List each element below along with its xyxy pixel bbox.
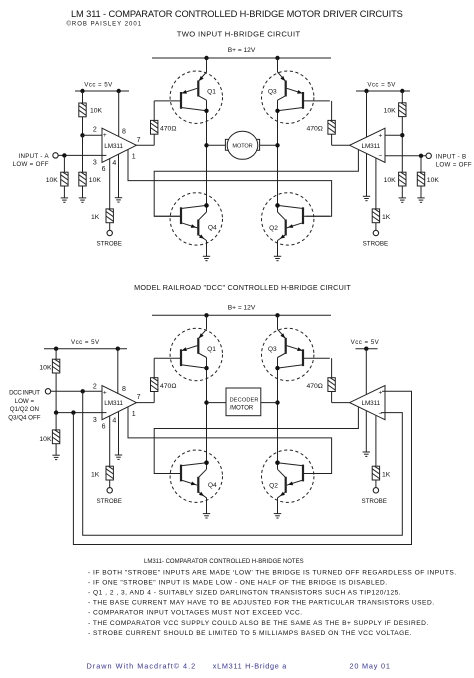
svg-text:Q1/Q2 ON: Q1/Q2 ON <box>10 406 39 413</box>
node Vcc rail (bottom left) <box>44 339 127 351</box>
pin 6 wire right to strobe <box>375 158 377 209</box>
resistor R14 470ohm (U3 out to Q1 base) <box>136 358 176 402</box>
wire U1 pin1 to Q2 base <box>128 150 332 217</box>
svg-text:Q1: Q1 <box>207 89 216 96</box>
svg-text:20 May 01: 20 May 01 <box>350 662 391 671</box>
node Vcc stub (bottom right) <box>351 339 380 351</box>
svg-text:6: 6 <box>102 424 106 431</box>
svg-text:- IF ONE "STROBE" INPUT IS MAD: - IF ONE "STROBE" INPUT IS MADE LOW - ON… <box>88 579 388 586</box>
resistor R13 1K (strobe bottom left) <box>91 466 113 487</box>
svg-text:10K: 10K <box>90 107 103 114</box>
resistor R11 10K (Vcc to divider) <box>39 349 59 413</box>
op-amp U3 LM311 (bottom left) <box>102 386 136 420</box>
wire motor left <box>207 144 226 146</box>
op-amp U1 LM311 (left) <box>102 128 136 162</box>
node Vcc rail (left) <box>75 82 129 94</box>
node pin3 loop junction <box>71 410 75 414</box>
svg-text:STROBE: STROBE <box>96 498 121 505</box>
svg-text:LM311: LM311 <box>104 143 123 150</box>
pin 4 wire (U4) <box>365 411 367 452</box>
svg-text:- IF BOTH "STROBE" INPUTS ARE: - IF BOTH "STROBE" INPUTS ARE MADE ‘LOW’… <box>88 569 457 576</box>
svg-text:4: 4 <box>112 160 116 167</box>
decoder/motor box <box>226 388 261 416</box>
node input B junction <box>419 154 423 158</box>
resistor R2 10K (pin2 node to ground) <box>79 135 102 198</box>
svg-text:4: 4 <box>112 418 116 425</box>
svg-text:10K: 10K <box>46 177 59 184</box>
svg-text:- Q1 , 2 , 3, AND 4 - SUITABLY: - Q1 , 2 , 3, AND 4 - SUITABLY SIZED DAR… <box>88 590 401 597</box>
node Vcc rail (right) <box>356 82 410 94</box>
svg-text:Q2: Q2 <box>269 483 278 490</box>
svg-text:- COMPARATOR INPUT VOLTAGES MU: - COMPARATOR INPUT VOLTAGES MUST NOT EXC… <box>88 610 303 617</box>
terminal INPUT-A <box>13 153 59 169</box>
svg-text:Q3: Q3 <box>268 346 277 353</box>
ground under right column <box>274 514 281 518</box>
terminal DCC INPUT <box>8 389 50 422</box>
svg-text:+: + <box>103 132 107 139</box>
wire pin3 line <box>56 412 106 414</box>
pin 6 wire (U4) <box>375 416 377 467</box>
wire DCC input to pin2 <box>51 390 102 392</box>
transistor Q4 (NPN darlington) <box>154 450 222 502</box>
svg-text:LOW = OFF: LOW = OFF <box>13 161 49 168</box>
resistor R4 1K (strobe, left) <box>91 209 113 230</box>
pin 6 wire to strobe resistor <box>109 158 111 209</box>
resistor R6 10K (Vcc to pin2, right) <box>384 91 406 172</box>
transistor Q3 (PNP darlington) <box>262 328 330 380</box>
motor M1 <box>225 131 259 159</box>
transistor Q3 (PNP darlington) <box>262 71 330 123</box>
wire pin3 to INPUT-B <box>381 155 426 157</box>
terminal STROBE (bottom right) <box>361 488 386 505</box>
svg-text:6: 6 <box>102 166 106 173</box>
svg-text:1K: 1K <box>382 214 391 221</box>
ground pin 4 (U3) <box>115 455 122 459</box>
svg-text:INPUT - B: INPUT - B <box>436 153 467 160</box>
wire motor right <box>260 144 278 146</box>
transistor Q1 (PNP darlington) <box>154 328 222 380</box>
svg-text:470Ω: 470Ω <box>306 383 322 390</box>
pin 4 wire (U3) <box>118 412 120 456</box>
svg-text:−: − <box>378 410 382 417</box>
svg-text:B+ = 12V: B+ = 12V <box>228 47 256 54</box>
resistor R15 1K (strobe bottom right) <box>372 466 391 487</box>
pin 8 wire right (V+) <box>366 91 368 137</box>
svg-text:Vcc = 5V: Vcc = 5V <box>351 339 380 346</box>
wire U2 pin1 to Q4 base <box>154 150 358 216</box>
svg-text:Q4: Q4 <box>208 225 217 232</box>
wire DCC loop inner (U3 pin2 node to U4 pin3) <box>83 391 403 535</box>
svg-text:−: − <box>378 153 382 160</box>
svg-text:1: 1 <box>132 411 136 418</box>
node pin2 divider <box>80 133 84 137</box>
pin 6 wire (U3) <box>109 416 111 467</box>
svg-text:7: 7 <box>137 394 141 401</box>
svg-text:470Ω: 470Ω <box>160 383 176 390</box>
svg-text:2: 2 <box>93 384 97 391</box>
svg-text:LM311: LM311 <box>104 400 123 407</box>
svg-text:DCC INPUT: DCC INPUT <box>9 390 40 397</box>
ground under R7 <box>399 198 406 202</box>
svg-text:+: + <box>103 389 107 396</box>
ground pin 4 (U4) <box>363 452 370 456</box>
node DCC input junction <box>81 389 85 393</box>
svg-text:©ROB PAISLEY 2001: ©ROB PAISLEY 2001 <box>67 21 143 28</box>
svg-text:1: 1 <box>132 154 136 161</box>
svg-text:Vcc = 5V: Vcc = 5V <box>367 82 396 89</box>
wire decoder right <box>261 402 278 404</box>
svg-text:LM311- COMPARATOR CONTROLLED H: LM311- COMPARATOR CONTROLLED H-BRIDGE NO… <box>144 559 304 565</box>
svg-text:LM 311 - COMPARATOR CONTROLLED: LM 311 - COMPARATOR CONTROLLED H-BRIDGE … <box>71 9 403 19</box>
ground pin 4 (U1) <box>115 198 122 202</box>
wire DCC loop outer (U3 pin3 node to U4 pin2) <box>73 391 411 544</box>
svg-text:10K: 10K <box>384 107 397 114</box>
resistor R16 470ohm (U4 out to Q3 base) <box>306 358 349 402</box>
resistor R8 10K (input B to ground) <box>417 156 439 198</box>
svg-text:/MOTOR: /MOTOR <box>230 405 254 411</box>
pin 8 wire (U3) <box>117 349 119 394</box>
svg-text:10K: 10K <box>39 436 52 443</box>
wire INPUT-A to pin3 <box>58 154 106 156</box>
wire U4 pin1 to Q4 base (bottom) <box>154 407 358 473</box>
svg-text:Q3/Q4 OFF: Q3/Q4 OFF <box>8 414 41 421</box>
transistor Q2 (NPN darlington) <box>262 450 330 502</box>
svg-text:LOW = OFF: LOW = OFF <box>436 162 472 169</box>
svg-text:10K: 10K <box>89 177 102 184</box>
wire pin2 right comparator <box>385 134 402 136</box>
node B+ rail <box>152 47 331 60</box>
svg-text:10K: 10K <box>427 177 440 184</box>
svg-text:STROBE: STROBE <box>361 498 386 505</box>
svg-text:7: 7 <box>137 137 141 144</box>
svg-text:STROBE: STROBE <box>363 241 388 248</box>
wire right bridge column <box>275 315 279 513</box>
pin 4 wire to ground <box>118 154 120 198</box>
resistor R1 10K (Vcc to pin2) <box>79 91 103 135</box>
svg-text:B+ = 12V: B+ = 12V <box>228 304 256 311</box>
pin 4 wire right to ground <box>366 154 368 197</box>
ground under left column <box>203 514 210 518</box>
terminal STROBE (left) <box>96 230 121 247</box>
ground under R2 <box>79 198 86 202</box>
transistor Q1 (PNP darlington) <box>154 71 222 123</box>
resistor R10 470ohm (U2 out to Q3 base) <box>306 101 349 145</box>
pin 8 wire (V+) <box>118 91 120 137</box>
ground under right column <box>274 256 281 260</box>
svg-text:10K: 10K <box>384 177 397 184</box>
ground under left column <box>203 256 210 260</box>
svg-text:3: 3 <box>93 160 97 167</box>
svg-text:INPUT - A: INPUT - A <box>18 153 49 160</box>
transistor Q4 (NPN darlington) <box>154 193 222 245</box>
svg-text:+: + <box>378 390 382 397</box>
node B+ rail <box>152 304 331 317</box>
wire right bridge column <box>275 58 279 256</box>
svg-text:3: 3 <box>93 417 97 424</box>
svg-text:LM311: LM311 <box>362 143 381 150</box>
svg-text:+: + <box>378 132 382 139</box>
wire pin2 to comparator <box>83 134 103 136</box>
svg-text:1K: 1K <box>91 214 100 221</box>
ground pin 4 (U2) <box>363 196 370 200</box>
node divider/pin3 <box>54 410 58 414</box>
node pin2 divider right <box>400 133 404 137</box>
svg-text:Q3: Q3 <box>268 89 277 96</box>
node input A junction <box>62 153 66 157</box>
terminal STROBE (right) <box>363 230 388 247</box>
svg-text:10K: 10K <box>39 365 52 372</box>
wire U3 pin1 to Q2 base (bottom) <box>128 407 332 474</box>
transistor Q2 (NPN darlington) <box>262 193 330 245</box>
svg-text:xLM311 H-Bridge a: xLM311 H-Bridge a <box>213 662 287 671</box>
svg-text:- THE COMPARATOR VCC SUPPLY CO: - THE COMPARATOR VCC SUPPLY COULD ALSO B… <box>88 620 429 627</box>
svg-text:470Ω: 470Ω <box>306 126 322 133</box>
svg-text:LM311: LM311 <box>362 400 381 407</box>
resistor R7 10K (pin2 node to ground, right) <box>384 172 406 198</box>
svg-text:1K: 1K <box>91 472 100 479</box>
svg-text:8: 8 <box>122 129 126 136</box>
svg-text:Vcc = 5V: Vcc = 5V <box>84 82 113 89</box>
ground under R8 <box>417 198 424 202</box>
op-amp U4 LM311 (bottom right) <box>350 386 385 420</box>
terminal INPUT-B <box>426 153 472 169</box>
svg-text:2: 2 <box>93 126 97 133</box>
svg-text:- STROBE CURRENT SHOULD BE LIM: - STROBE CURRENT SHOULD BE LIMITED TO 5 … <box>88 630 412 637</box>
wire left bridge column <box>204 315 208 513</box>
resistor R12 10K (divider to ground) <box>39 413 59 456</box>
resistor R5 470ohm (U1 out to Q1 base) <box>136 101 176 145</box>
svg-text:STROBE: STROBE <box>96 241 121 248</box>
svg-text:- THE BASE CURRENT MAY HAVE TO: - THE BASE CURRENT MAY HAVE TO BE ADJUST… <box>88 600 435 607</box>
svg-text:Drawn With Macdraft© 4.2: Drawn With Macdraft© 4.2 <box>87 662 197 671</box>
wire left bridge column <box>204 58 208 256</box>
svg-text:Vcc = 5V: Vcc = 5V <box>71 339 100 346</box>
svg-text:8: 8 <box>122 386 126 393</box>
svg-text:MOTOR: MOTOR <box>232 144 252 150</box>
ground under R3 <box>61 198 68 202</box>
svg-text:MODEL RAILROAD "DCC" CONTROLLE: MODEL RAILROAD "DCC" CONTROLLED H-BRIDGE… <box>134 283 351 292</box>
op-amp U2 LM311 (right) <box>350 128 385 162</box>
ground under R12 <box>52 455 59 459</box>
wire decoder left <box>207 402 227 404</box>
svg-text:Q2: Q2 <box>269 225 278 232</box>
svg-text:1K: 1K <box>382 472 391 479</box>
svg-text:Q4: Q4 <box>208 482 217 489</box>
svg-text:DECODER: DECODER <box>230 398 259 404</box>
pin 8 wire (U4) <box>365 349 367 395</box>
resistor R9 1K (strobe, right) <box>372 209 391 230</box>
terminal STROBE (bottom left) <box>96 488 121 505</box>
svg-text:Q1: Q1 <box>207 346 216 353</box>
svg-text:TWO INPUT H-BRIDGE CIRCUIT: TWO INPUT H-BRIDGE CIRCUIT <box>177 30 301 39</box>
resistor R3 10K (input to ground) <box>46 155 68 198</box>
svg-text:LOW =: LOW = <box>15 398 35 405</box>
svg-text:470Ω: 470Ω <box>160 126 176 133</box>
